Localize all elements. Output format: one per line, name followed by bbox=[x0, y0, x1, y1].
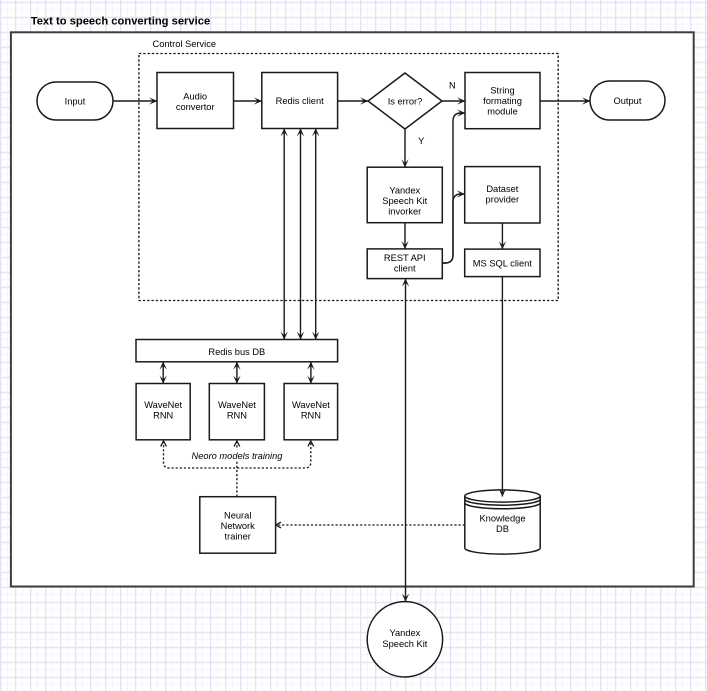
svg-text:module: module bbox=[487, 107, 518, 117]
svg-text:Y: Y bbox=[418, 136, 424, 146]
svg-text:Speech Kit: Speech Kit bbox=[382, 639, 427, 649]
svg-text:Yandex: Yandex bbox=[389, 628, 420, 638]
svg-text:DB: DB bbox=[496, 524, 509, 534]
svg-text:RNN: RNN bbox=[153, 411, 173, 421]
svg-text:WaveNet: WaveNet bbox=[218, 400, 256, 410]
svg-text:Redis client: Redis client bbox=[276, 96, 324, 106]
svg-text:Dataset: Dataset bbox=[486, 184, 518, 194]
svg-text:Audio: Audio bbox=[183, 91, 207, 101]
svg-text:WaveNet: WaveNet bbox=[144, 400, 182, 410]
svg-text:String: String bbox=[490, 86, 514, 96]
svg-text:Redis bus DB: Redis bus DB bbox=[208, 347, 265, 357]
svg-text:Network: Network bbox=[221, 521, 255, 531]
svg-text:Neural: Neural bbox=[224, 510, 251, 520]
svg-text:Neoro models training: Neoro models training bbox=[192, 451, 284, 461]
svg-text:Knowledge: Knowledge bbox=[479, 514, 525, 524]
svg-text:Control Service: Control Service bbox=[153, 39, 217, 49]
svg-text:RNN: RNN bbox=[227, 411, 247, 421]
svg-text:client: client bbox=[394, 263, 416, 273]
svg-text:MS SQL client: MS SQL client bbox=[473, 258, 532, 268]
svg-text:formating: formating bbox=[483, 96, 522, 106]
svg-text:WaveNet: WaveNet bbox=[292, 400, 330, 410]
svg-text:RNN: RNN bbox=[301, 411, 321, 421]
svg-text:Output: Output bbox=[614, 96, 642, 106]
svg-text:Speech Kit: Speech Kit bbox=[382, 196, 427, 206]
svg-text:invorker: invorker bbox=[388, 207, 421, 217]
svg-text:trainer: trainer bbox=[225, 531, 251, 541]
svg-text:REST API: REST API bbox=[384, 253, 426, 263]
svg-text:Input: Input bbox=[65, 96, 86, 106]
svg-text:Text to speech converting serv: Text to speech converting service bbox=[31, 16, 210, 28]
svg-text:Is error?: Is error? bbox=[388, 97, 423, 107]
svg-text:N: N bbox=[449, 81, 456, 91]
svg-text:convertor: convertor bbox=[176, 102, 215, 112]
svg-text:provider: provider bbox=[486, 195, 520, 205]
svg-text:Yandex: Yandex bbox=[389, 185, 420, 195]
